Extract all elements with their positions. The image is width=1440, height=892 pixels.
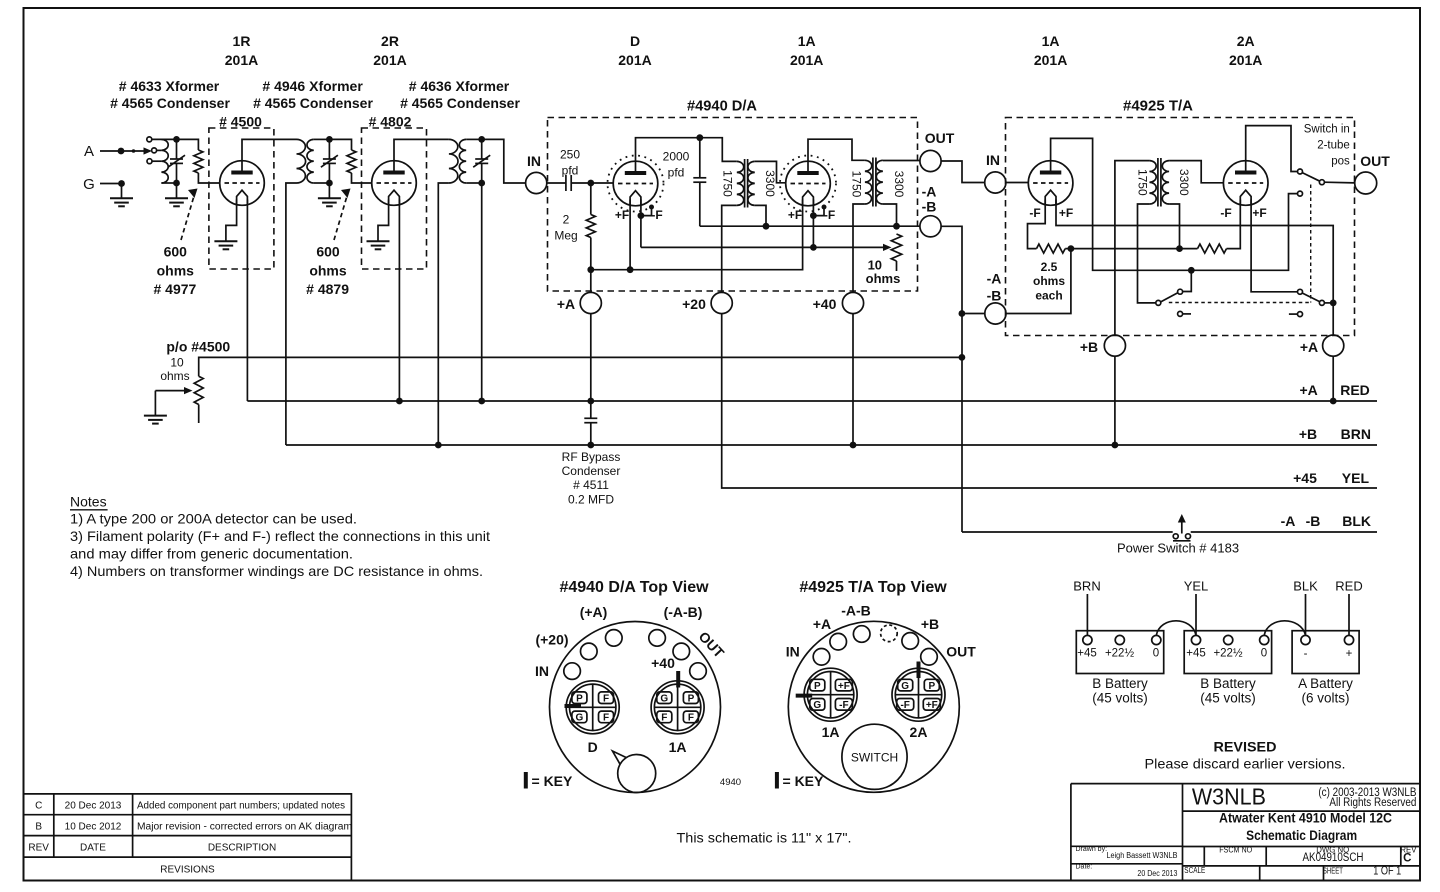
node +B on BRN rail bbox=[1112, 442, 1119, 449]
svg-text:+22½: +22½ bbox=[1213, 648, 1243, 660]
terminal OUT of #4925 bbox=[1355, 172, 1377, 194]
wire +A(D/A) terminal down to RED rail bbox=[590, 314, 592, 401]
svg-text:BLK: BLK bbox=[1293, 579, 1318, 594]
svg-text:p/o #4500: p/o #4500 bbox=[166, 339, 230, 355]
label tube 1R bbox=[225, 33, 258, 68]
label -F +F of T/A 1A bbox=[1029, 206, 1073, 220]
mechanical link dashed bbox=[1169, 185, 1311, 303]
label B Battery 2 bbox=[1200, 676, 1256, 706]
labels +45 YEL bbox=[1293, 470, 1369, 486]
svg-text:OUT: OUT bbox=[925, 130, 955, 146]
labels -A -B (D/A) bbox=[922, 184, 937, 215]
wire 2R filament right leg down to +A rail bbox=[398, 200, 400, 402]
wire YEL lead bbox=[1195, 594, 1197, 635]
svg-text:Drawn by:: Drawn by: bbox=[1076, 846, 1108, 853]
svg-text:1750: 1750 bbox=[721, 170, 735, 197]
wire R2 bottom to tube 2R grid bbox=[352, 173, 372, 183]
svg-text:(+A): (+A) bbox=[580, 604, 608, 620]
wire coil top to C1 bbox=[152, 138, 176, 140]
svg-text:(+20): (+20) bbox=[535, 632, 568, 648]
svg-text:C: C bbox=[35, 801, 42, 812]
output switch blade bbox=[1302, 173, 1320, 182]
svg-text:4) Numbers on transformer wind: 4) Numbers on transformer windings are D… bbox=[70, 563, 483, 579]
svg-text:#4925 T/A: #4925 T/A bbox=[1123, 98, 1193, 115]
svg-text:+F: +F bbox=[1059, 206, 1073, 220]
svg-text:1750: 1750 bbox=[1136, 169, 1150, 196]
svg-text:Date:: Date: bbox=[1076, 864, 1093, 871]
wire R1 bottom to tube 1R grid bbox=[198, 173, 219, 183]
svg-text:-: - bbox=[1304, 648, 1308, 660]
ground at G bbox=[110, 184, 133, 207]
svg-text:F: F bbox=[603, 713, 609, 724]
capacitor C4 250 pfd bbox=[566, 175, 571, 191]
wire R5 bus to T/A transformer and R6 bbox=[1071, 248, 1198, 250]
svg-text:+F: +F bbox=[615, 208, 629, 222]
notes text bbox=[70, 494, 490, 580]
wire C3 top to IN terminal bbox=[482, 139, 526, 183]
svg-text:+45: +45 bbox=[1186, 648, 1206, 660]
svg-text:1) A type 200 or 200A detector: 1) A type 200 or 200A detector can be us… bbox=[70, 511, 357, 527]
#4925 pin +B bbox=[902, 633, 919, 650]
svg-text:# 4977: # 4977 bbox=[153, 281, 196, 297]
junction 2R filament on +A rail bbox=[396, 398, 403, 405]
svg-text:Meg: Meg bbox=[554, 229, 577, 243]
terminal G bbox=[83, 176, 125, 193]
wire T3 secondary top to 2A grid bbox=[1169, 161, 1223, 183]
svg-text:REV: REV bbox=[28, 843, 49, 854]
svg-text:+22½: +22½ bbox=[1105, 648, 1135, 660]
label +F -F of 1A bbox=[788, 208, 835, 222]
wire C5 bottom to -A-B bus bbox=[700, 225, 766, 227]
right switch blade bbox=[1302, 293, 1320, 302]
output switch lower throw contact bbox=[1298, 191, 1303, 196]
svg-text:+F: +F bbox=[926, 700, 938, 711]
node +40 on BRN rail bbox=[850, 442, 857, 449]
triode 1A with socket bbox=[780, 156, 836, 212]
svg-text:0: 0 bbox=[1261, 648, 1267, 660]
svg-text:Please discard earlier version: Please discard earlier versions. bbox=[1145, 756, 1346, 772]
wire 1R filament left leg to ground bbox=[226, 200, 237, 241]
svg-text:201A: 201A bbox=[1034, 52, 1067, 68]
connector #4925 body bbox=[788, 621, 959, 792]
svg-text:ohms: ohms bbox=[866, 271, 901, 286]
svg-text:-F: -F bbox=[1220, 206, 1231, 220]
wire +20 terminal down to YEL rail bbox=[722, 314, 1377, 488]
svg-text:2A: 2A bbox=[1237, 33, 1255, 49]
rheostat R4 10 ohms bbox=[891, 234, 901, 271]
terminal +B of #4925 bbox=[1104, 335, 1125, 356]
legend key D/A bbox=[526, 772, 573, 789]
-F wire to rheostat arrow bbox=[641, 244, 892, 251]
svg-text:REVISED: REVISED bbox=[1214, 739, 1277, 755]
svg-text:SCALE: SCALE bbox=[1184, 866, 1205, 875]
variable capacitor C1 #4565 bbox=[168, 139, 185, 183]
svg-text:-F: -F bbox=[900, 700, 909, 711]
variable capacitor C2 #4565 bbox=[321, 139, 338, 183]
label B Battery 1 bbox=[1092, 676, 1148, 706]
key bar socket 1A of #4940 bbox=[676, 671, 680, 688]
svg-text:F: F bbox=[688, 713, 694, 724]
#4925 pin -A-B bbox=[853, 626, 870, 643]
label +F -F of D bbox=[615, 208, 663, 222]
jumper B1 to B2 bbox=[1156, 621, 1196, 635]
transformer #4946 primary bbox=[297, 139, 306, 183]
dashed box #4500 bbox=[209, 128, 274, 269]
svg-text:RED: RED bbox=[1340, 382, 1370, 398]
svg-text:(45 volts): (45 volts) bbox=[1200, 691, 1256, 706]
svg-text:1A: 1A bbox=[822, 724, 840, 740]
wire T2 secondary bottom to -A-B bus bbox=[883, 204, 897, 226]
terminal A bbox=[84, 143, 152, 160]
triode 2A bbox=[1223, 161, 1268, 206]
wire 1R filament right leg down to +A rail bbox=[246, 200, 248, 402]
output switch common contact bbox=[1319, 180, 1324, 185]
svg-text:pfd: pfd bbox=[668, 166, 685, 180]
BRN rail +B bbox=[286, 444, 1377, 446]
#4940 pin OUT upper bbox=[673, 643, 690, 660]
svg-text:IN: IN bbox=[786, 644, 800, 660]
ground below tube 1R bbox=[214, 241, 237, 249]
svg-text:#4940 D/A Top View: #4940 D/A Top View bbox=[559, 579, 709, 596]
svg-text:-B: -B bbox=[922, 199, 937, 215]
wire 1A plate to transformer T2 primary bbox=[808, 139, 865, 173]
wire BLK lead bbox=[1305, 594, 1307, 635]
svg-text:P: P bbox=[576, 694, 583, 705]
node R3 on +A bus bbox=[587, 266, 594, 273]
terminal IN of #4940 bbox=[526, 172, 547, 193]
wire T1 secondary top to 1A grid bbox=[755, 161, 786, 182]
node top of C1 bbox=[173, 136, 180, 143]
ground below C1 bbox=[165, 183, 188, 206]
svg-text:ohms: ohms bbox=[157, 263, 195, 279]
node top of C3 bbox=[478, 136, 485, 143]
capacitor C5 2000 pfd bbox=[693, 138, 706, 227]
node plate of D bbox=[696, 134, 703, 141]
wire secondary top to C2 bbox=[314, 138, 330, 140]
svg-text:IN: IN bbox=[527, 153, 541, 169]
svg-text:# 4946 Xformer: # 4946 Xformer bbox=[262, 78, 363, 94]
wire 2R filament left leg to ground bbox=[378, 200, 389, 241]
socket 1A of #4940 bbox=[651, 681, 704, 734]
svg-text:FSCM NO: FSCM NO bbox=[1219, 845, 1252, 854]
node -F of D bbox=[638, 212, 645, 219]
node -F of 1A bbox=[810, 212, 817, 219]
wire D plate to node above 2000pfd bbox=[636, 138, 700, 173]
node +F of D on +A bus bbox=[627, 266, 634, 273]
wire secondary bottom to C3 bottom bbox=[466, 182, 482, 184]
node +A on RED rail bbox=[1330, 398, 1337, 405]
terminal OUT of #4940 bbox=[920, 150, 941, 171]
wire BRN lead bbox=[1086, 594, 1088, 635]
svg-text:G: G bbox=[901, 681, 909, 692]
label RF Bypass Condenser # 4511 0.2 MFD bbox=[562, 450, 621, 507]
svg-text:10: 10 bbox=[170, 356, 184, 370]
right switch common contact bbox=[1319, 300, 1324, 305]
svg-text:This schematic is 11" x 17".: This schematic is 11" x 17". bbox=[677, 830, 852, 846]
svg-text:-A: -A bbox=[1281, 513, 1296, 529]
terminal +A of #4940 bbox=[580, 292, 601, 313]
wire +B to transformer T3 primary top bbox=[1115, 161, 1150, 335]
socket D of #4940 bbox=[566, 681, 619, 734]
label Switch in 2-tube pos bbox=[1304, 124, 1350, 168]
junction #4636 primary on +B rail bbox=[435, 442, 442, 449]
svg-text:IN: IN bbox=[986, 152, 1000, 168]
svg-text:B Battery: B Battery bbox=[1092, 676, 1148, 691]
wire +40 terminal down to BRN rail bbox=[852, 314, 854, 445]
svg-text:250: 250 bbox=[560, 148, 580, 162]
resistor R3 2 Meg bbox=[586, 215, 595, 238]
transformer T2 core bbox=[873, 158, 876, 207]
transformer #4946 secondary bbox=[307, 139, 314, 183]
right switch upper throw contact bbox=[1298, 289, 1303, 294]
-F stub of 1A bbox=[813, 205, 826, 216]
label tube 1A (detector unit) bbox=[790, 33, 823, 68]
svg-text:P: P bbox=[814, 681, 821, 692]
tube-switch blade bbox=[1161, 293, 1179, 302]
svg-text:G: G bbox=[83, 176, 95, 193]
svg-text:BLK: BLK bbox=[1342, 513, 1371, 529]
junction C3 on +A rail bbox=[478, 398, 485, 405]
svg-text:BRN: BRN bbox=[1341, 426, 1371, 442]
svg-text:-F: -F bbox=[824, 208, 835, 222]
svg-text:Leigh Bassett W3NLB: Leigh Bassett W3NLB bbox=[1107, 851, 1178, 860]
svg-text:Added component part numbers;: Added component part numbers; updated no… bbox=[137, 801, 345, 812]
svg-text:+F: +F bbox=[838, 681, 850, 692]
svg-text:YEL: YEL bbox=[1184, 579, 1209, 594]
svg-text:# 4633 Xformer: # 4633 Xformer bbox=[119, 78, 220, 94]
wire RED lead bbox=[1348, 594, 1350, 635]
svg-text:(-A-B): (-A-B) bbox=[664, 604, 703, 620]
antenna coil taps bbox=[147, 137, 162, 164]
svg-text:D: D bbox=[630, 33, 640, 49]
svg-text:DATE: DATE bbox=[80, 843, 106, 854]
wire secondary bottom to C2 bottom bbox=[314, 182, 330, 184]
svg-text:+A: +A bbox=[1300, 339, 1318, 355]
triode D with socket bbox=[608, 156, 664, 212]
resistor R2 600 ohms #4879 bbox=[347, 150, 356, 173]
svg-text:1A: 1A bbox=[798, 33, 816, 49]
filament -F leg of D bbox=[640, 200, 642, 248]
wire -A-B bus to OUT-B terminal bbox=[766, 225, 920, 227]
svg-text:AK04910SCH: AK04910SCH bbox=[1303, 852, 1364, 864]
triode 2R bbox=[372, 161, 417, 206]
svg-text:+20: +20 bbox=[682, 296, 706, 312]
#4940 pin -A-B bbox=[649, 630, 666, 647]
filament +F leg of 2A to switch bbox=[1251, 200, 1297, 292]
svg-text:-B: -B bbox=[987, 288, 1002, 304]
svg-text:3300: 3300 bbox=[763, 170, 777, 197]
wire C2 top to R2 bbox=[329, 139, 351, 150]
svg-text:D: D bbox=[588, 739, 598, 755]
wire R6 to 2A -F leg bbox=[1227, 200, 1241, 249]
svg-text:F: F bbox=[603, 694, 609, 705]
svg-text:+40: +40 bbox=[813, 296, 837, 312]
transformer T3 primary 1750 bbox=[1149, 161, 1156, 204]
key bar socket 2A T/A bbox=[917, 662, 921, 679]
label -F +F of 2A bbox=[1220, 206, 1266, 220]
svg-text:+45: +45 bbox=[1293, 470, 1317, 486]
svg-text:201A: 201A bbox=[618, 52, 651, 68]
wire C3 bottom down to +A rail bbox=[481, 183, 483, 401]
transformer T1 core bbox=[745, 159, 748, 208]
rheostat p/o #4500 10 ohms bbox=[194, 376, 203, 423]
node +A D/A on RED rail bbox=[587, 398, 594, 405]
svg-text:+B: +B bbox=[921, 616, 939, 632]
#4925 pin +A bbox=[830, 633, 847, 650]
svg-text:# 4565 Condenser: # 4565 Condenser bbox=[110, 95, 230, 111]
resistor R1 600 ohms #4977 bbox=[194, 150, 203, 173]
label 10 ohms bbox=[866, 258, 901, 287]
filament +F leg of T/A 1A to +A bbox=[1056, 200, 1333, 336]
labels -A -B BLK bbox=[1281, 513, 1371, 529]
label SHEET bbox=[1323, 866, 1401, 878]
terminal -A-B of #4925 bbox=[985, 303, 1006, 324]
label transformer #4946 / condenser #4565 bbox=[253, 78, 373, 111]
svg-text:A: A bbox=[84, 143, 94, 160]
svg-text:0: 0 bbox=[1153, 648, 1159, 660]
rheostat wiper arrow from ground bbox=[155, 387, 192, 415]
svg-text:1750: 1750 bbox=[850, 171, 864, 198]
svg-text:# 4636 Xformer: # 4636 Xformer bbox=[409, 78, 510, 94]
leader arrow to R1 bbox=[181, 189, 198, 241]
svg-text:G: G bbox=[660, 694, 668, 705]
svg-text:A Battery: A Battery bbox=[1298, 676, 1353, 691]
svg-text:B: B bbox=[35, 822, 42, 833]
svg-text:# 4565 Condenser: # 4565 Condenser bbox=[400, 95, 520, 111]
label 2000 pfd bbox=[663, 150, 690, 180]
svg-text:ohms: ohms bbox=[160, 369, 189, 383]
svg-text:BRN: BRN bbox=[1073, 579, 1100, 594]
svg-text:2: 2 bbox=[563, 213, 570, 227]
wire R3 bottom to +A bus bbox=[590, 238, 592, 270]
svg-text:-A-B: -A-B bbox=[841, 603, 871, 619]
A battery box bbox=[1292, 631, 1359, 674]
label Atwater Kent title bbox=[1219, 810, 1392, 843]
svg-text:Major revision - corrected err: Major revision - corrected errors on AK … bbox=[137, 822, 352, 833]
wire #4636 primary bottom down to +B rail bbox=[438, 183, 449, 445]
filament -F leg of T/A 1A to resistor bbox=[1028, 200, 1046, 249]
transformer #4636 secondary bbox=[459, 139, 466, 183]
node T3 secondary on filament bus bbox=[1176, 245, 1183, 252]
wire secondary top to C3 bbox=[466, 138, 482, 140]
svg-text:Notes: Notes bbox=[70, 494, 107, 510]
node rheostat wire tap bbox=[959, 354, 966, 361]
svg-text:each: each bbox=[1035, 289, 1062, 303]
label transformer #4636 / condenser #4565 bbox=[400, 78, 520, 111]
wire 1R plate to transformer #4946 primary bbox=[242, 139, 297, 172]
connector #4940 body bbox=[550, 622, 721, 793]
switch boss of #4925 bbox=[842, 724, 907, 789]
terminal +40 bbox=[842, 292, 863, 313]
key bar socket 1A T/A bbox=[796, 694, 813, 698]
power switch # 4183 bbox=[1173, 514, 1191, 541]
transformer T1 primary 1750 bbox=[737, 161, 744, 205]
wire junction to -A-B terminal bbox=[1006, 249, 1071, 314]
socket 1A of #4925 bbox=[804, 668, 857, 721]
label 600 ohms # 4977 bbox=[153, 244, 196, 298]
node R5 junction bbox=[1068, 245, 1075, 252]
svg-text:P: P bbox=[928, 681, 935, 692]
svg-text:# 4565 Condenser: # 4565 Condenser bbox=[253, 95, 373, 111]
svg-text:# 4511: # 4511 bbox=[573, 478, 609, 492]
right switch unused throw bbox=[1289, 312, 1303, 317]
svg-text:+F: +F bbox=[1252, 206, 1266, 220]
svg-text:C: C bbox=[1403, 853, 1411, 865]
svg-text:-A: -A bbox=[922, 184, 937, 200]
#4925 pin unused dashed bbox=[881, 625, 898, 642]
node right switch on +A leg bbox=[1330, 300, 1337, 307]
ground at rheostat wiper bbox=[144, 416, 167, 424]
#4940 pin OUT lower bbox=[690, 663, 707, 680]
variable capacitor C3 #4565 bbox=[473, 139, 490, 183]
filament -F leg of 1A bbox=[812, 200, 814, 248]
svg-text:+B: +B bbox=[1080, 339, 1098, 355]
label 600 ohms # 4879 bbox=[306, 244, 349, 298]
svg-text:2-tube: 2-tube bbox=[1317, 140, 1350, 152]
svg-text:1A: 1A bbox=[669, 739, 687, 755]
node -F of 1A on rheostat wire bbox=[810, 244, 817, 251]
svg-text:+A: +A bbox=[813, 616, 831, 632]
tube-switch common contact bbox=[1156, 300, 1161, 305]
node switch tap on plate bus bbox=[1188, 267, 1195, 274]
transformer T2 primary 1750 bbox=[865, 160, 872, 204]
label tube 1A (amplifier unit) bbox=[1034, 33, 1067, 68]
wire #4946 primary bottom down to +B rail bbox=[286, 183, 297, 445]
svg-text:2000: 2000 bbox=[663, 150, 690, 164]
wire C1 top to R1 bbox=[177, 139, 199, 150]
triode 1A of T/A bbox=[1028, 161, 1073, 206]
svg-text:P: P bbox=[688, 694, 695, 705]
-F stub of D bbox=[641, 205, 654, 216]
filament +F leg of D bbox=[629, 200, 631, 270]
transformer T3 secondary 3300 bbox=[1162, 161, 1169, 204]
wire OUT to IN of T/A bbox=[941, 161, 985, 183]
label REV C bbox=[1400, 845, 1417, 864]
wire T2 secondary top to OUT terminal bbox=[883, 160, 920, 162]
svg-text:1A: 1A bbox=[1042, 33, 1060, 49]
wire T1 secondary bottom to -A-B bus bbox=[755, 205, 766, 226]
svg-text:2.5: 2.5 bbox=[1041, 260, 1058, 274]
label REVISED bbox=[1145, 739, 1346, 772]
#4925 pin IN bbox=[813, 649, 830, 666]
svg-text:0.2 MFD: 0.2 MFD bbox=[568, 493, 614, 507]
wire 2A plate to output switch bbox=[1246, 126, 1298, 173]
svg-text:-F: -F bbox=[839, 700, 848, 711]
svg-text:4940: 4940 bbox=[720, 777, 741, 788]
svg-text:# 4879: # 4879 bbox=[306, 281, 349, 297]
node RF bypass on BRN rail bbox=[587, 442, 594, 449]
svg-text:20 Dec 2013: 20 Dec 2013 bbox=[65, 801, 122, 812]
svg-text:RED: RED bbox=[1335, 579, 1362, 594]
terminal IN of #4925 bbox=[985, 172, 1006, 193]
svg-text:20 Dec 2013: 20 Dec 2013 bbox=[1137, 869, 1177, 878]
label DWG NO bbox=[1303, 845, 1364, 864]
svg-text:+40: +40 bbox=[651, 655, 675, 671]
wire T3 primary bottom to tube switch bbox=[1138, 204, 1156, 303]
tube-switch unused throw bbox=[1178, 311, 1191, 316]
svg-text:pfd: pfd bbox=[562, 164, 579, 178]
terminal +20 bbox=[711, 292, 732, 313]
wire C4 to grid node bbox=[571, 182, 613, 184]
label tube 2A bbox=[1229, 33, 1262, 68]
BLK rail -A-B bbox=[962, 531, 1377, 533]
svg-text:W3NLB: W3NLB bbox=[1192, 783, 1266, 809]
wire rheostat top to -A-B tap bbox=[199, 357, 962, 376]
wire D plate node to transformer T1 primary bbox=[700, 138, 737, 162]
svg-text:+F: +F bbox=[788, 208, 802, 222]
transformer T2 secondary 3300 bbox=[876, 160, 883, 204]
revisions table bbox=[25, 794, 353, 881]
